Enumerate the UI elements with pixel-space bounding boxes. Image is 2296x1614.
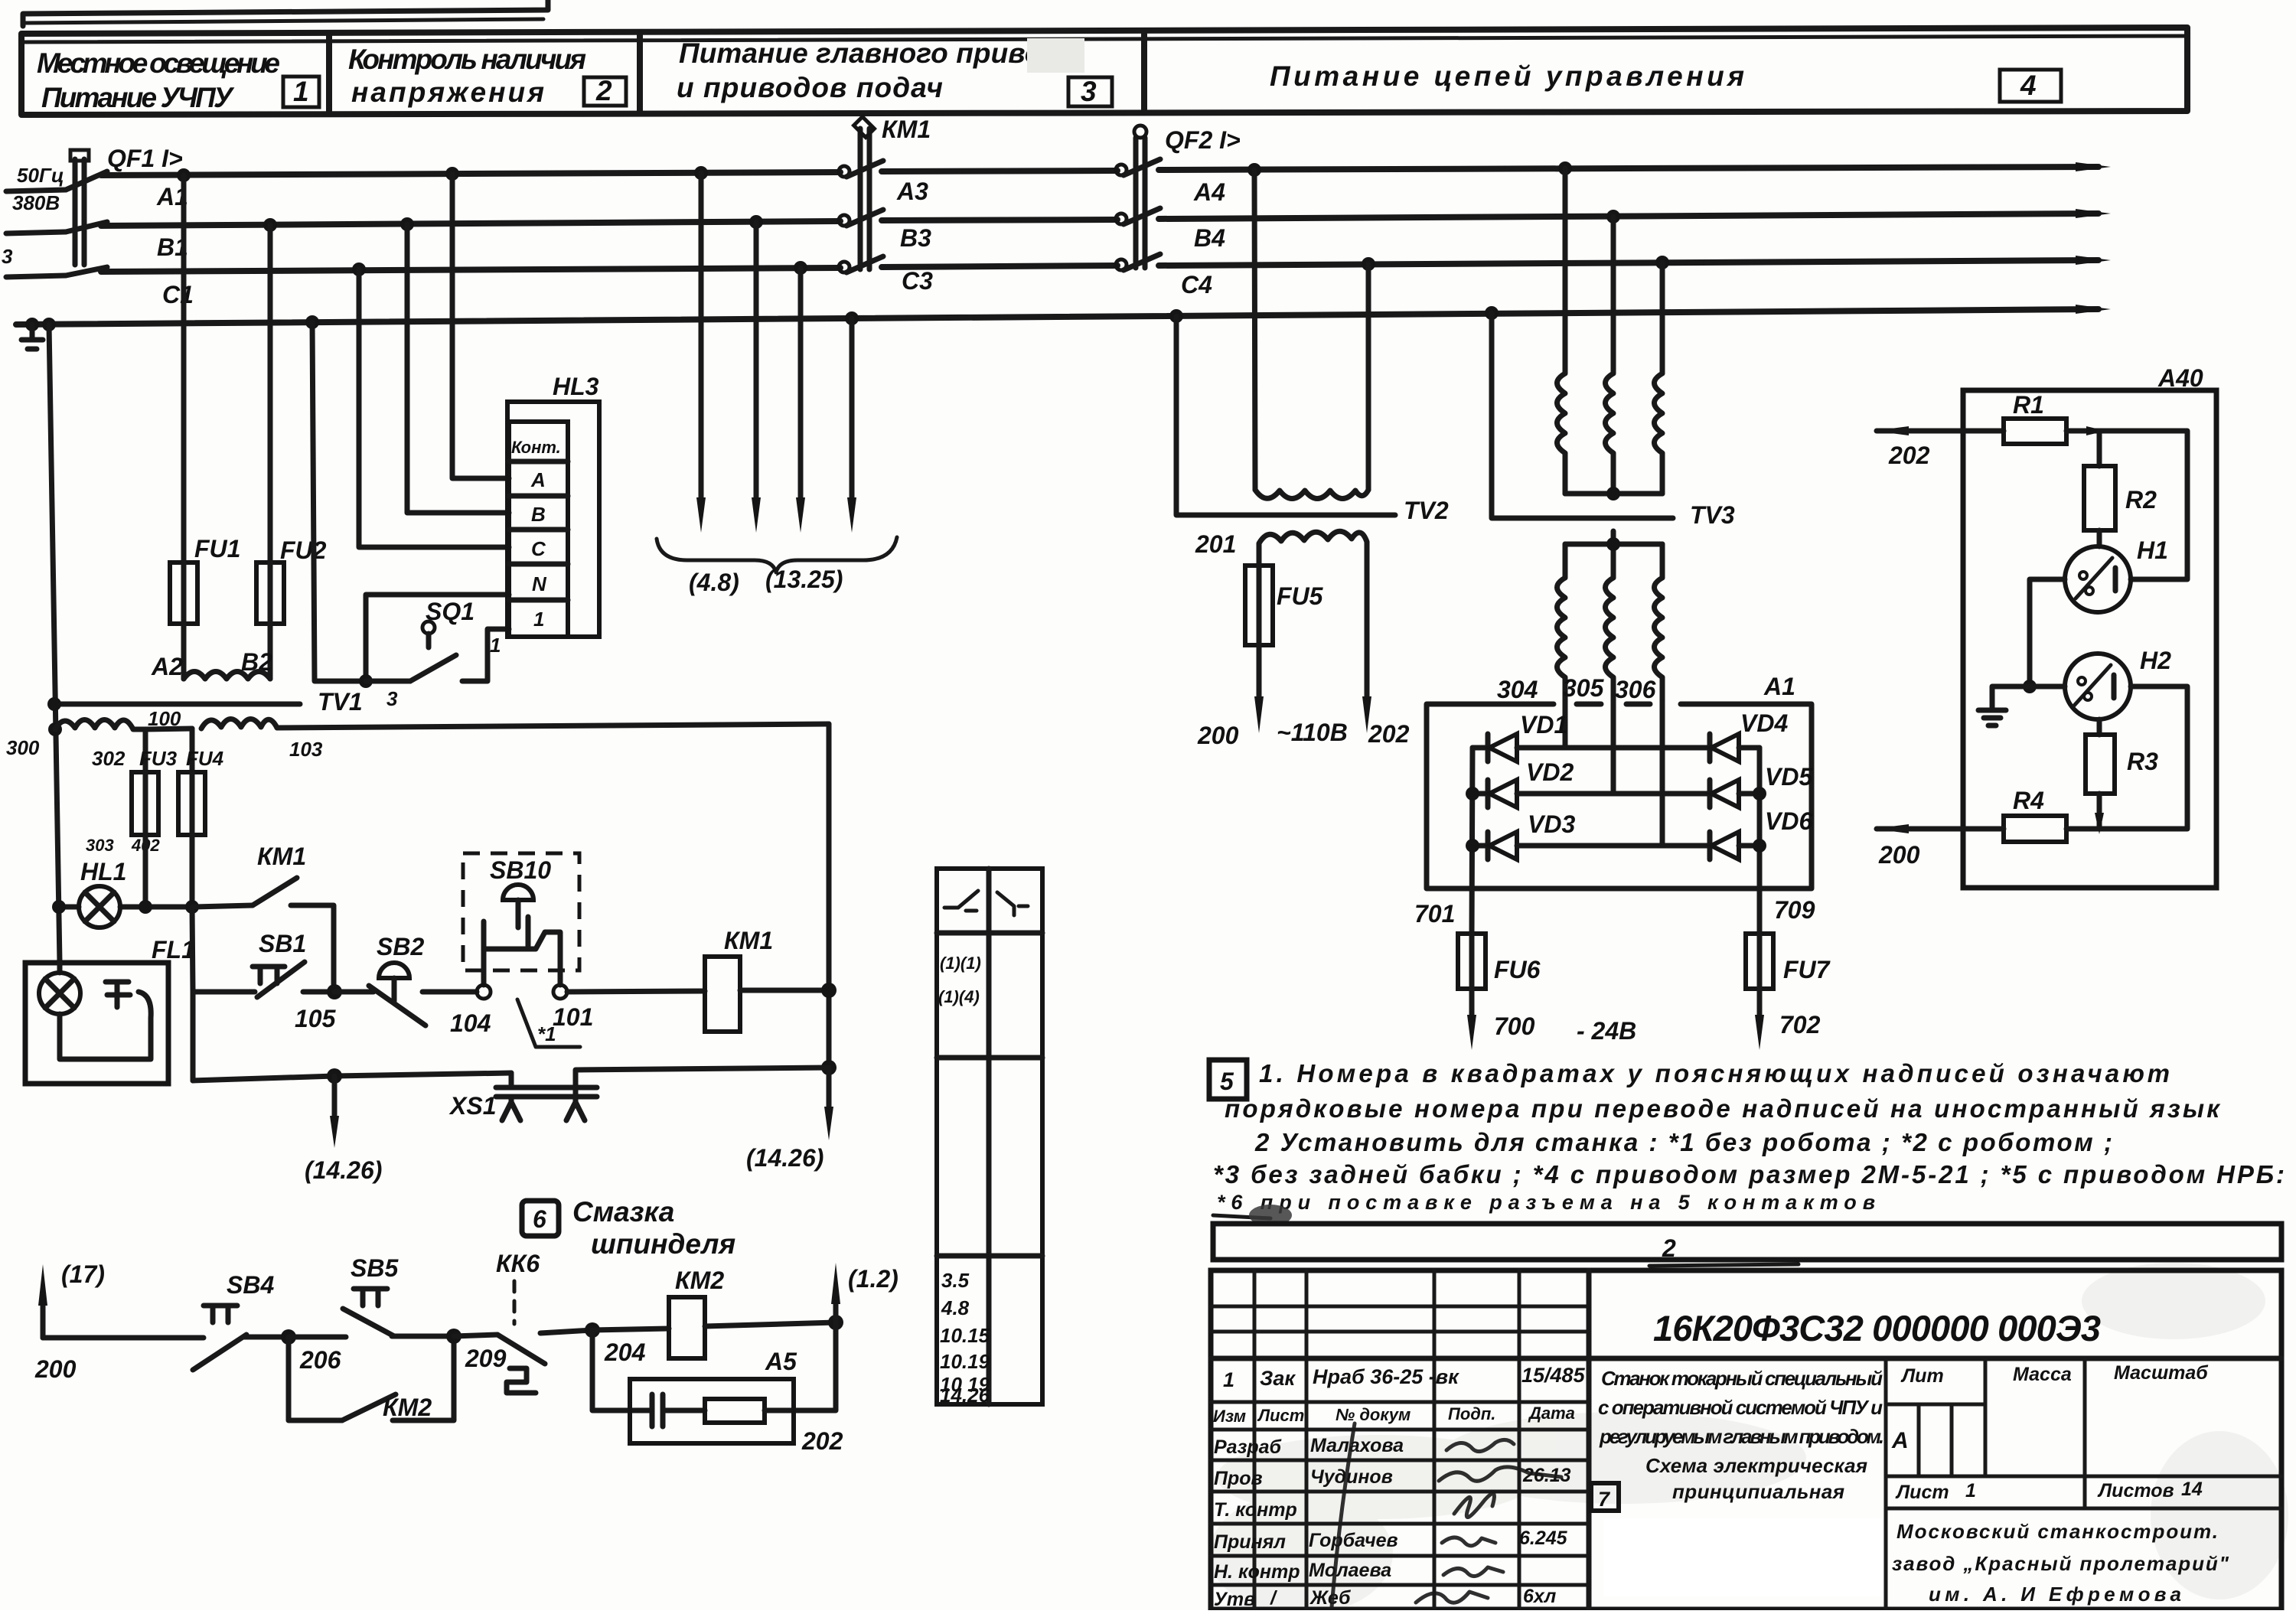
svg-text:В4: В4 [1194, 224, 1225, 252]
arrow down (14.26) left [305, 1076, 382, 1184]
svg-text:3.5: 3.5 [941, 1269, 970, 1292]
svg-text:ТV3: ТV3 [1690, 501, 1735, 529]
node N drop [305, 315, 319, 329]
fuse FU3 [132, 747, 178, 835]
svg-text:700: 700 [1494, 1012, 1535, 1040]
svg-text:(1)(1): (1)(1) [940, 954, 981, 973]
node B1-FU2 [263, 218, 277, 232]
svg-text:Н2: Н2 [2140, 647, 2171, 674]
svg-text:QF2 I>: QF2 I> [1165, 126, 1241, 154]
svg-text:Чудинов: Чудинов [1310, 1466, 1393, 1488]
svg-text:С: С [531, 537, 546, 560]
TV1 core line [52, 702, 300, 707]
svg-text:А2: А2 [151, 653, 183, 680]
svg-text:209: 209 [465, 1345, 507, 1372]
diode VD1 [1473, 711, 1567, 761]
sheet frame remnant top-left [23, 0, 548, 26]
svg-text:(14.26): (14.26) [305, 1156, 382, 1184]
wire A1 drop to FU1 [181, 175, 187, 562]
svg-text:N: N [532, 572, 547, 595]
ground [1978, 686, 2030, 725]
svg-text:702: 702 [1779, 1011, 1821, 1039]
svg-text:Питание главного привода: Питание главного привода [679, 37, 1075, 69]
svg-text:VD4: VD4 [1740, 709, 1788, 737]
svg-text:3: 3 [386, 687, 398, 710]
svg-text:FU4: FU4 [186, 747, 224, 770]
header divider 1-2 [326, 35, 332, 114]
svg-text:~110В: ~110В [1277, 719, 1348, 746]
svg-text:1: 1 [533, 608, 544, 631]
svg-text:FU1: FU1 [194, 535, 240, 562]
svg-text:16К20Ф3С32 000000 000Э3: 16К20Ф3С32 000000 000Э3 [1653, 1308, 2101, 1348]
luminaire FL1 box [25, 936, 195, 1084]
sheet number bar [1213, 1224, 2281, 1266]
neon lamp H1 [2065, 536, 2168, 612]
arrow up (17) left [34, 1260, 105, 1383]
svg-text:1: 1 [293, 76, 309, 107]
fuse FU1 [170, 535, 240, 624]
regulator block A40 box [1963, 364, 2216, 888]
svg-text:*3 без задней бабки ; *4 с: *3 без задней бабки ; *4 с приводом разм… [1213, 1160, 2285, 1188]
node C1 feeder [794, 261, 807, 275]
svg-text:2: 2 [595, 75, 612, 106]
title block left grid [1211, 1270, 2281, 1609]
svg-text:VD5: VD5 [1765, 763, 1813, 791]
title block outer frame [1211, 1270, 2281, 1609]
svg-text:VD3: VD3 [1528, 810, 1575, 838]
svg-text:FL1: FL1 [152, 936, 195, 964]
svg-text:2: 2 [1662, 1234, 1676, 1262]
svg-text:Лист: Лист [1257, 1406, 1304, 1425]
svg-text:200: 200 [1878, 841, 1920, 869]
node TV3 secondary star [1606, 537, 1620, 551]
signatures scrawl [1332, 1423, 1561, 1607]
node C4-TV2 [1362, 257, 1375, 271]
svg-text:КМ2: КМ2 [383, 1394, 432, 1421]
svg-text:1: 1 [490, 634, 501, 657]
transformer TV2 primary winding [1255, 490, 1368, 499]
wire left vertical (N down to FL1) [49, 324, 60, 963]
svg-text:380В: 380В [12, 191, 60, 214]
svg-text:ТV1: ТV1 [318, 688, 363, 716]
coil KM1 [705, 927, 829, 1032]
svg-text:Масштаб: Масштаб [2114, 1362, 2209, 1384]
svg-text:204: 204 [604, 1338, 646, 1366]
svg-text:Утв: Утв [1214, 1589, 1255, 1610]
svg-text:шпинделя: шпинделя [591, 1228, 735, 1260]
header band outline [21, 28, 2187, 115]
wire N drop to junction 890 [312, 322, 366, 681]
arrow wire 700 [1467, 989, 1535, 1050]
wire B1 drop to FU2 [268, 225, 273, 562]
wires 304 305 306 into rectifier [1565, 702, 1662, 846]
svg-text:с оперативной системой ЧПУ и: с оперативной системой ЧПУ и [1598, 1396, 1883, 1419]
node B4-TV3 [1606, 210, 1620, 223]
svg-text:С1: С1 [162, 281, 194, 308]
wire bus A (A1-A3-A4) [101, 167, 2099, 175]
node B1 feeder [749, 215, 763, 229]
wire N loop to HL3 row N [366, 595, 509, 681]
node A4-TV2 [1247, 163, 1261, 177]
svg-text:ТV2: ТV2 [1404, 497, 1449, 524]
svg-text:R4: R4 [2013, 787, 2044, 814]
svg-text:14.26: 14.26 [940, 1384, 990, 1407]
svg-text:15/485: 15/485 [1521, 1364, 1586, 1387]
svg-text:HL3: HL3 [553, 373, 599, 400]
brace under feeders [657, 537, 897, 572]
arrow wire 702 [1755, 989, 1821, 1050]
contact KM1 auxiliary (self-hold) [193, 843, 334, 992]
wire vertical SB1 left [191, 992, 196, 1081]
svg-text:R1: R1 [2013, 391, 2044, 419]
header title cell 2 [348, 44, 626, 108]
factory name [1892, 1520, 2229, 1606]
svg-text:А1: А1 [1763, 673, 1795, 700]
svg-text:Зак: Зак [1260, 1367, 1296, 1390]
svg-text:В: В [531, 503, 546, 526]
node N-TV3 screen [1485, 306, 1499, 320]
diode VD4 [1565, 709, 1788, 761]
node ground junction [2023, 680, 2037, 693]
svg-text:регулируемым главным приводом.: регулируемым главным приводом. [1599, 1425, 1884, 1448]
svg-text:А3: А3 [896, 178, 928, 205]
section 7 marker [1591, 1483, 1619, 1511]
arrow bus N end [2076, 305, 2111, 314]
arrow wire 202 (110V) [1362, 565, 1410, 748]
svg-text:200: 200 [34, 1355, 77, 1383]
svg-text:QF1 I>: QF1 I> [107, 145, 183, 172]
node 250 (FU4 / aux / SB1) [185, 900, 199, 914]
svg-text:1: 1 [1965, 1480, 1976, 1502]
contact KM2 bypass [289, 1336, 454, 1421]
svg-text:FU7: FU7 [1783, 956, 1831, 983]
svg-text:206: 206 [299, 1346, 341, 1374]
wire H2 right branch [2099, 686, 2187, 829]
svg-text:(4.8): (4.8) [689, 569, 739, 596]
svg-text:FU2: FU2 [280, 536, 327, 564]
svg-text:R3: R3 [2127, 748, 2158, 775]
wire FU4 bottom to node 250 [190, 835, 195, 907]
svg-text:HL1: HL1 [80, 858, 126, 885]
wire 101 to KM1 coil [567, 991, 705, 992]
circuit breaker QF1 [66, 145, 183, 276]
svg-text:XS1: XS1 [448, 1092, 496, 1120]
svg-text:4: 4 [2020, 70, 2037, 101]
svg-text:(13.25): (13.25) [765, 566, 843, 593]
wire FU4 drop [190, 729, 195, 772]
svg-text:Горбачев: Горбачев [1309, 1530, 1398, 1551]
svg-text:R2: R2 [2125, 486, 2157, 514]
node TV1 core left [47, 697, 61, 711]
svg-text:103: 103 [289, 738, 323, 761]
svg-text:- 24В: - 24В [1577, 1017, 1636, 1045]
wire TV2 primary right [1366, 264, 1371, 490]
supply input labels ~50Hz 380V [2, 164, 64, 268]
node bottom 105 [327, 1068, 342, 1084]
contacts reference table [937, 869, 1042, 1407]
svg-text:Масса: Масса [2013, 1364, 2072, 1385]
svg-text:им. А. И Ефремова: им. А. И Ефремова [1929, 1583, 2181, 1606]
svg-text:709: 709 [1774, 896, 1815, 924]
svg-text:2 Установить для станка : *1: 2 Установить для станка : *1 без робота … [1254, 1128, 2112, 1156]
connector XS1 [448, 1068, 829, 1120]
svg-text:701: 701 [1414, 900, 1455, 928]
svg-text:104: 104 [450, 1009, 491, 1037]
svg-text:А4: А4 [1193, 178, 1225, 206]
wire FU1 to TV1 [181, 624, 187, 679]
svg-text:КМ2: КМ2 [675, 1267, 724, 1294]
svg-text:завод „Красный пролетарий": завод „Красный пролетарий" [1892, 1552, 2229, 1575]
diode VD5 [1613, 763, 1813, 807]
svg-text:*1: *1 [537, 1022, 556, 1045]
svg-text:SB1: SB1 [259, 930, 306, 957]
node A1-HL3 [445, 167, 459, 181]
stains [1209, 1263, 2288, 1614]
fuse FU6 [1458, 934, 1541, 989]
wire 103 column down [827, 724, 832, 1068]
svg-text:SB4: SB4 [227, 1271, 274, 1299]
svg-text:Дата: Дата [1528, 1404, 1575, 1423]
svg-text:Местное освещение: Местное освещение [37, 47, 280, 79]
svg-text:VD2: VD2 [1526, 758, 1574, 786]
svg-text:КМ1: КМ1 [882, 116, 931, 143]
wire bus N [16, 309, 2099, 324]
svg-text:Принял: Принял [1214, 1531, 1286, 1553]
pushbutton SB10 (robot option, dashed box) [463, 853, 579, 999]
wire TV1 secondary baseline to FU4 [145, 729, 192, 729]
svg-text:(1.2): (1.2) [848, 1265, 899, 1293]
label lubrication [572, 1196, 735, 1260]
node TV3 primary star [1606, 487, 1620, 501]
svg-text:Схема электрическая: Схема электрическая [1645, 1454, 1867, 1477]
fuse FU5 [1245, 566, 1324, 645]
svg-text:105: 105 [295, 1005, 337, 1032]
fuse FU4 [178, 747, 224, 835]
title block signature rows [1214, 1435, 1571, 1610]
svg-text:303: 303 [86, 836, 114, 855]
arrow bus C end [2076, 256, 2111, 265]
svg-text:С4: С4 [1181, 271, 1212, 298]
wire TV2 screen / core [1176, 316, 1395, 515]
svg-text:Пров: Пров [1214, 1468, 1263, 1489]
node C4-TV3 [1655, 256, 1669, 269]
header divider 2-3 [637, 34, 643, 113]
svg-text:Смазка: Смазка [572, 1196, 674, 1228]
svg-text:FU6: FU6 [1494, 956, 1541, 983]
node B1-HL3 [400, 217, 414, 231]
svg-text:порядковые номера при перев: порядковые номера при переводе надписей … [1225, 1094, 2221, 1123]
wire FU2 to TV1 [268, 624, 273, 679]
title block revision row [1223, 1364, 1586, 1391]
switch SQ1 [386, 598, 509, 710]
header title cell 1 [37, 47, 319, 113]
wire TV3 screen / core [1492, 313, 1673, 518]
svg-text:Питание УЧПУ: Питание УЧПУ [41, 82, 235, 113]
wire 103 to control column [277, 724, 829, 728]
svg-text:202: 202 [1368, 720, 1410, 748]
wire junction to SQ1 [366, 679, 410, 684]
svg-text:Питание цепей управления: Питание цепей управления [1270, 60, 1744, 92]
connector block HL3 [507, 373, 599, 637]
arrow wire 202 into A40 [1874, 426, 2004, 469]
snubber A5 parallel branch [592, 1322, 843, 1455]
node A1-FU1 [177, 168, 191, 182]
svg-text:А: А [1891, 1428, 1909, 1453]
wire H1 left to ground node [2030, 579, 2065, 686]
svg-text:Изм: Изм [1213, 1407, 1246, 1426]
svg-text:Подп.: Подп. [1448, 1404, 1495, 1423]
svg-text:6: 6 [533, 1205, 546, 1233]
svg-text:А5: А5 [765, 1348, 797, 1375]
wire C1 to HL3 row C [359, 269, 509, 547]
pushbutton SB2 [334, 933, 477, 1025]
node N-TV2 screen [1169, 309, 1183, 323]
svg-text:Н. контр: Н. контр [1214, 1561, 1300, 1583]
svg-text:1. Номера в квадратах у по: 1. Номера в квадратах у поясняющих надпи… [1259, 1059, 2170, 1087]
node bottom right rung [821, 1060, 837, 1075]
wire FU3 bottom to HL1 line [143, 835, 148, 907]
svg-text:Т. контр: Т. контр [1214, 1499, 1297, 1521]
wire supply stub C [6, 276, 66, 277]
header divider 3-4 [1141, 33, 1147, 112]
N terminal stub [21, 318, 43, 349]
node HL1 right / FU3 [139, 900, 152, 914]
transformer TV3 secondary windings 304 305 306 [1557, 531, 1663, 702]
diode VD3 [1472, 810, 1665, 859]
node 209 [446, 1329, 461, 1344]
node TV1 secondary left [48, 722, 62, 736]
wire supply stub A [6, 190, 66, 191]
resistor R2 [2084, 431, 2157, 546]
title block right labels [1891, 1362, 2209, 1503]
svg-text:302: 302 [92, 747, 126, 770]
svg-text:Лит: Лит [1900, 1365, 1944, 1387]
title block right grid [1886, 1358, 2281, 1609]
wire 206 to SB5 [289, 1335, 346, 1340]
svg-text:FU5: FU5 [1277, 582, 1324, 610]
note text [1213, 1059, 2285, 1226]
svg-text:КМ1: КМ1 [724, 927, 773, 954]
wire A1 to HL3 row A [452, 174, 509, 478]
arrow up (1.2) [831, 1263, 899, 1322]
resistor R4 [2004, 787, 2099, 842]
node N left vertical top [42, 318, 56, 331]
neon lamp H2 [2030, 647, 2171, 719]
node 204 [585, 1322, 600, 1338]
machine name [1598, 1367, 1884, 1503]
whiteout patch [1603, 1518, 1883, 1596]
transformer TV3 primary windings [1557, 168, 1663, 494]
svg-text:101: 101 [553, 1003, 593, 1031]
svg-text:(17): (17) [61, 1260, 105, 1288]
node VD2 left [1466, 787, 1479, 800]
arrow wire 200 (110V) [1197, 645, 1264, 749]
note marker 5 [1209, 1060, 1247, 1099]
wire positive bus 709 [1757, 748, 1763, 934]
feeder arrow 3 [796, 268, 805, 533]
svg-text:Нраб 36-25 -вк: Нраб 36-25 -вк [1313, 1365, 1459, 1388]
node N feeder [845, 311, 859, 325]
feeder arrow 2 [752, 222, 761, 533]
node C1-HL3 [352, 262, 366, 276]
node 105 [327, 984, 342, 999]
svg-text:Лист: Лист [1895, 1482, 1949, 1503]
node 206 [281, 1329, 296, 1345]
svg-text:50Гц: 50Гц [17, 164, 64, 187]
svg-text:SB2: SB2 [377, 933, 424, 960]
svg-text:А: А [530, 468, 546, 491]
svg-text:202: 202 [801, 1427, 843, 1455]
svg-text:SB10: SB10 [490, 856, 551, 884]
svg-text:Конт.: Конт. [511, 438, 561, 457]
node A1 feeder [694, 166, 708, 180]
svg-text:1: 1 [1223, 1368, 1234, 1391]
header title cell 4 [1270, 60, 2061, 102]
svg-text:Московский станкостроит.: Московский станкостроит. [1896, 1520, 2218, 1543]
svg-text:(14.26): (14.26) [746, 1144, 823, 1172]
svg-text:и приводов подач: и приводов подач [677, 72, 943, 103]
wire FU3 drop [143, 729, 148, 772]
svg-text:В3: В3 [900, 224, 931, 252]
svg-text:100: 100 [148, 707, 181, 730]
svg-text:SB5: SB5 [351, 1254, 399, 1282]
node HL1 left [52, 900, 66, 914]
node VD3 left [1466, 839, 1479, 853]
option pointer *1 [517, 999, 580, 1047]
svg-text:VD1: VD1 [1520, 711, 1567, 739]
svg-text:КМ1: КМ1 [257, 843, 306, 870]
svg-text:напряжения: напряжения [351, 77, 544, 108]
arrow wire 200 out of A40 [1874, 824, 2004, 869]
svg-text:(1)(4): (1)(4) [938, 987, 980, 1006]
section 6 marker [522, 1201, 559, 1236]
svg-text:VD6: VD6 [1765, 807, 1812, 835]
svg-text:201: 201 [1195, 530, 1236, 558]
svg-text:200: 200 [1197, 722, 1239, 749]
diode VD6 [1665, 807, 1812, 859]
svg-text:4.8: 4.8 [941, 1296, 970, 1319]
svg-text:Станок токарный специальный: Станок токарный специальный [1601, 1367, 1883, 1390]
arrow down (14.26) right [746, 1068, 833, 1172]
node TV1 junction 3 [359, 674, 373, 688]
fuse FU2 [256, 536, 327, 624]
feeder arrow 1 [696, 173, 706, 533]
svg-text:300: 300 [6, 736, 40, 759]
node KM1 coil right [821, 983, 837, 998]
svg-text:10.19: 10.19 [940, 1350, 990, 1373]
svg-text:принципиальная: принципиальная [1672, 1480, 1844, 1503]
svg-text:Малахова: Малахова [1310, 1435, 1404, 1456]
pushbutton SB4 [193, 1271, 289, 1370]
svg-text:Листов: Листов [2097, 1480, 2174, 1502]
svg-text:305: 305 [1563, 674, 1605, 702]
svg-text:№ докум: № докум [1336, 1405, 1411, 1424]
svg-text:Н1: Н1 [2137, 536, 2168, 564]
svg-text:7: 7 [1598, 1488, 1611, 1511]
pushbutton SB5 [343, 1254, 454, 1336]
fuse FU7 [1746, 934, 1831, 989]
node VD6 right [1753, 839, 1766, 853]
pushbutton SB1 [193, 930, 334, 997]
arrow bus A end [2076, 162, 2111, 171]
title block column headers [1213, 1404, 1575, 1426]
svg-text:14: 14 [2181, 1479, 2203, 1500]
svg-text:3: 3 [2, 245, 13, 268]
svg-text:304: 304 [1497, 676, 1538, 703]
wire supply stub B [6, 232, 66, 233]
coil KM2 [669, 1267, 836, 1358]
svg-text:202: 202 [1888, 442, 1930, 469]
